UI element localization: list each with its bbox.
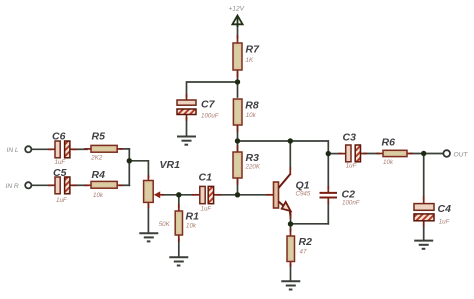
svg-text:C1: C1 <box>199 172 213 184</box>
svg-text:R7: R7 <box>246 44 261 56</box>
svg-text:R3: R3 <box>246 152 260 164</box>
svg-text:C3: C3 <box>343 132 357 144</box>
svg-text:100nF: 100nF <box>342 200 361 207</box>
svg-text:1K: 1K <box>246 57 254 64</box>
svg-text:R4: R4 <box>92 169 106 181</box>
svg-text:C7: C7 <box>201 99 216 111</box>
svg-text:2K2: 2K2 <box>90 155 103 162</box>
svg-text:R6: R6 <box>382 137 396 149</box>
svg-text:10k: 10k <box>93 192 104 199</box>
svg-text:+12V: +12V <box>229 5 245 12</box>
svg-text:47: 47 <box>300 249 307 256</box>
svg-text:C945: C945 <box>296 191 311 198</box>
svg-text:100uF: 100uF <box>201 113 220 120</box>
svg-text:C5: C5 <box>53 167 67 179</box>
svg-text:1uF: 1uF <box>55 159 67 166</box>
svg-text:1uF: 1uF <box>56 197 68 204</box>
svg-text:IN L: IN L <box>7 147 19 154</box>
svg-text:10k: 10k <box>383 159 394 166</box>
svg-text:1uF: 1uF <box>201 206 213 213</box>
svg-text:10k: 10k <box>186 223 197 230</box>
svg-text:1uF: 1uF <box>346 163 358 170</box>
svg-text:R2: R2 <box>299 236 313 248</box>
svg-text:R1: R1 <box>186 211 200 223</box>
svg-text:C4: C4 <box>438 203 452 215</box>
svg-text:OUT: OUT <box>454 151 469 158</box>
svg-text:220K: 220K <box>245 164 261 171</box>
svg-text:VR1: VR1 <box>160 159 181 171</box>
svg-text:C6: C6 <box>52 131 66 143</box>
svg-text:R5: R5 <box>92 131 106 143</box>
svg-text:50K: 50K <box>159 221 171 228</box>
svg-text:R8: R8 <box>245 100 259 112</box>
svg-text:IN R: IN R <box>6 183 19 190</box>
svg-text:1uF: 1uF <box>439 219 451 226</box>
svg-text:10k: 10k <box>246 112 257 119</box>
